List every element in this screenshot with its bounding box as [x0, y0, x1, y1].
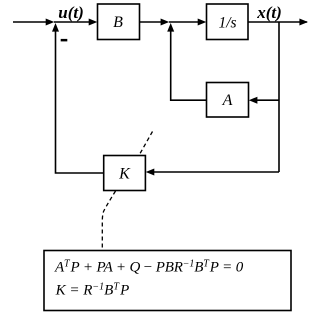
- svg-text:1/s: 1/s: [218, 15, 236, 32]
- svg-text:u(t): u(t): [58, 3, 84, 22]
- svg-text:x(t): x(t): [256, 3, 282, 22]
- svg-text:B: B: [113, 14, 123, 31]
- svg-text:K: K: [118, 166, 131, 183]
- svg-text:A: A: [222, 92, 233, 109]
- svg-text:AT P + PA + Q − PBR−1BT P = 0: AT P + PA + Q − PBR−1BT P = 0: [54, 259, 244, 276]
- svg-text:K = R−1BT P: K = R−1BT P: [55, 282, 130, 299]
